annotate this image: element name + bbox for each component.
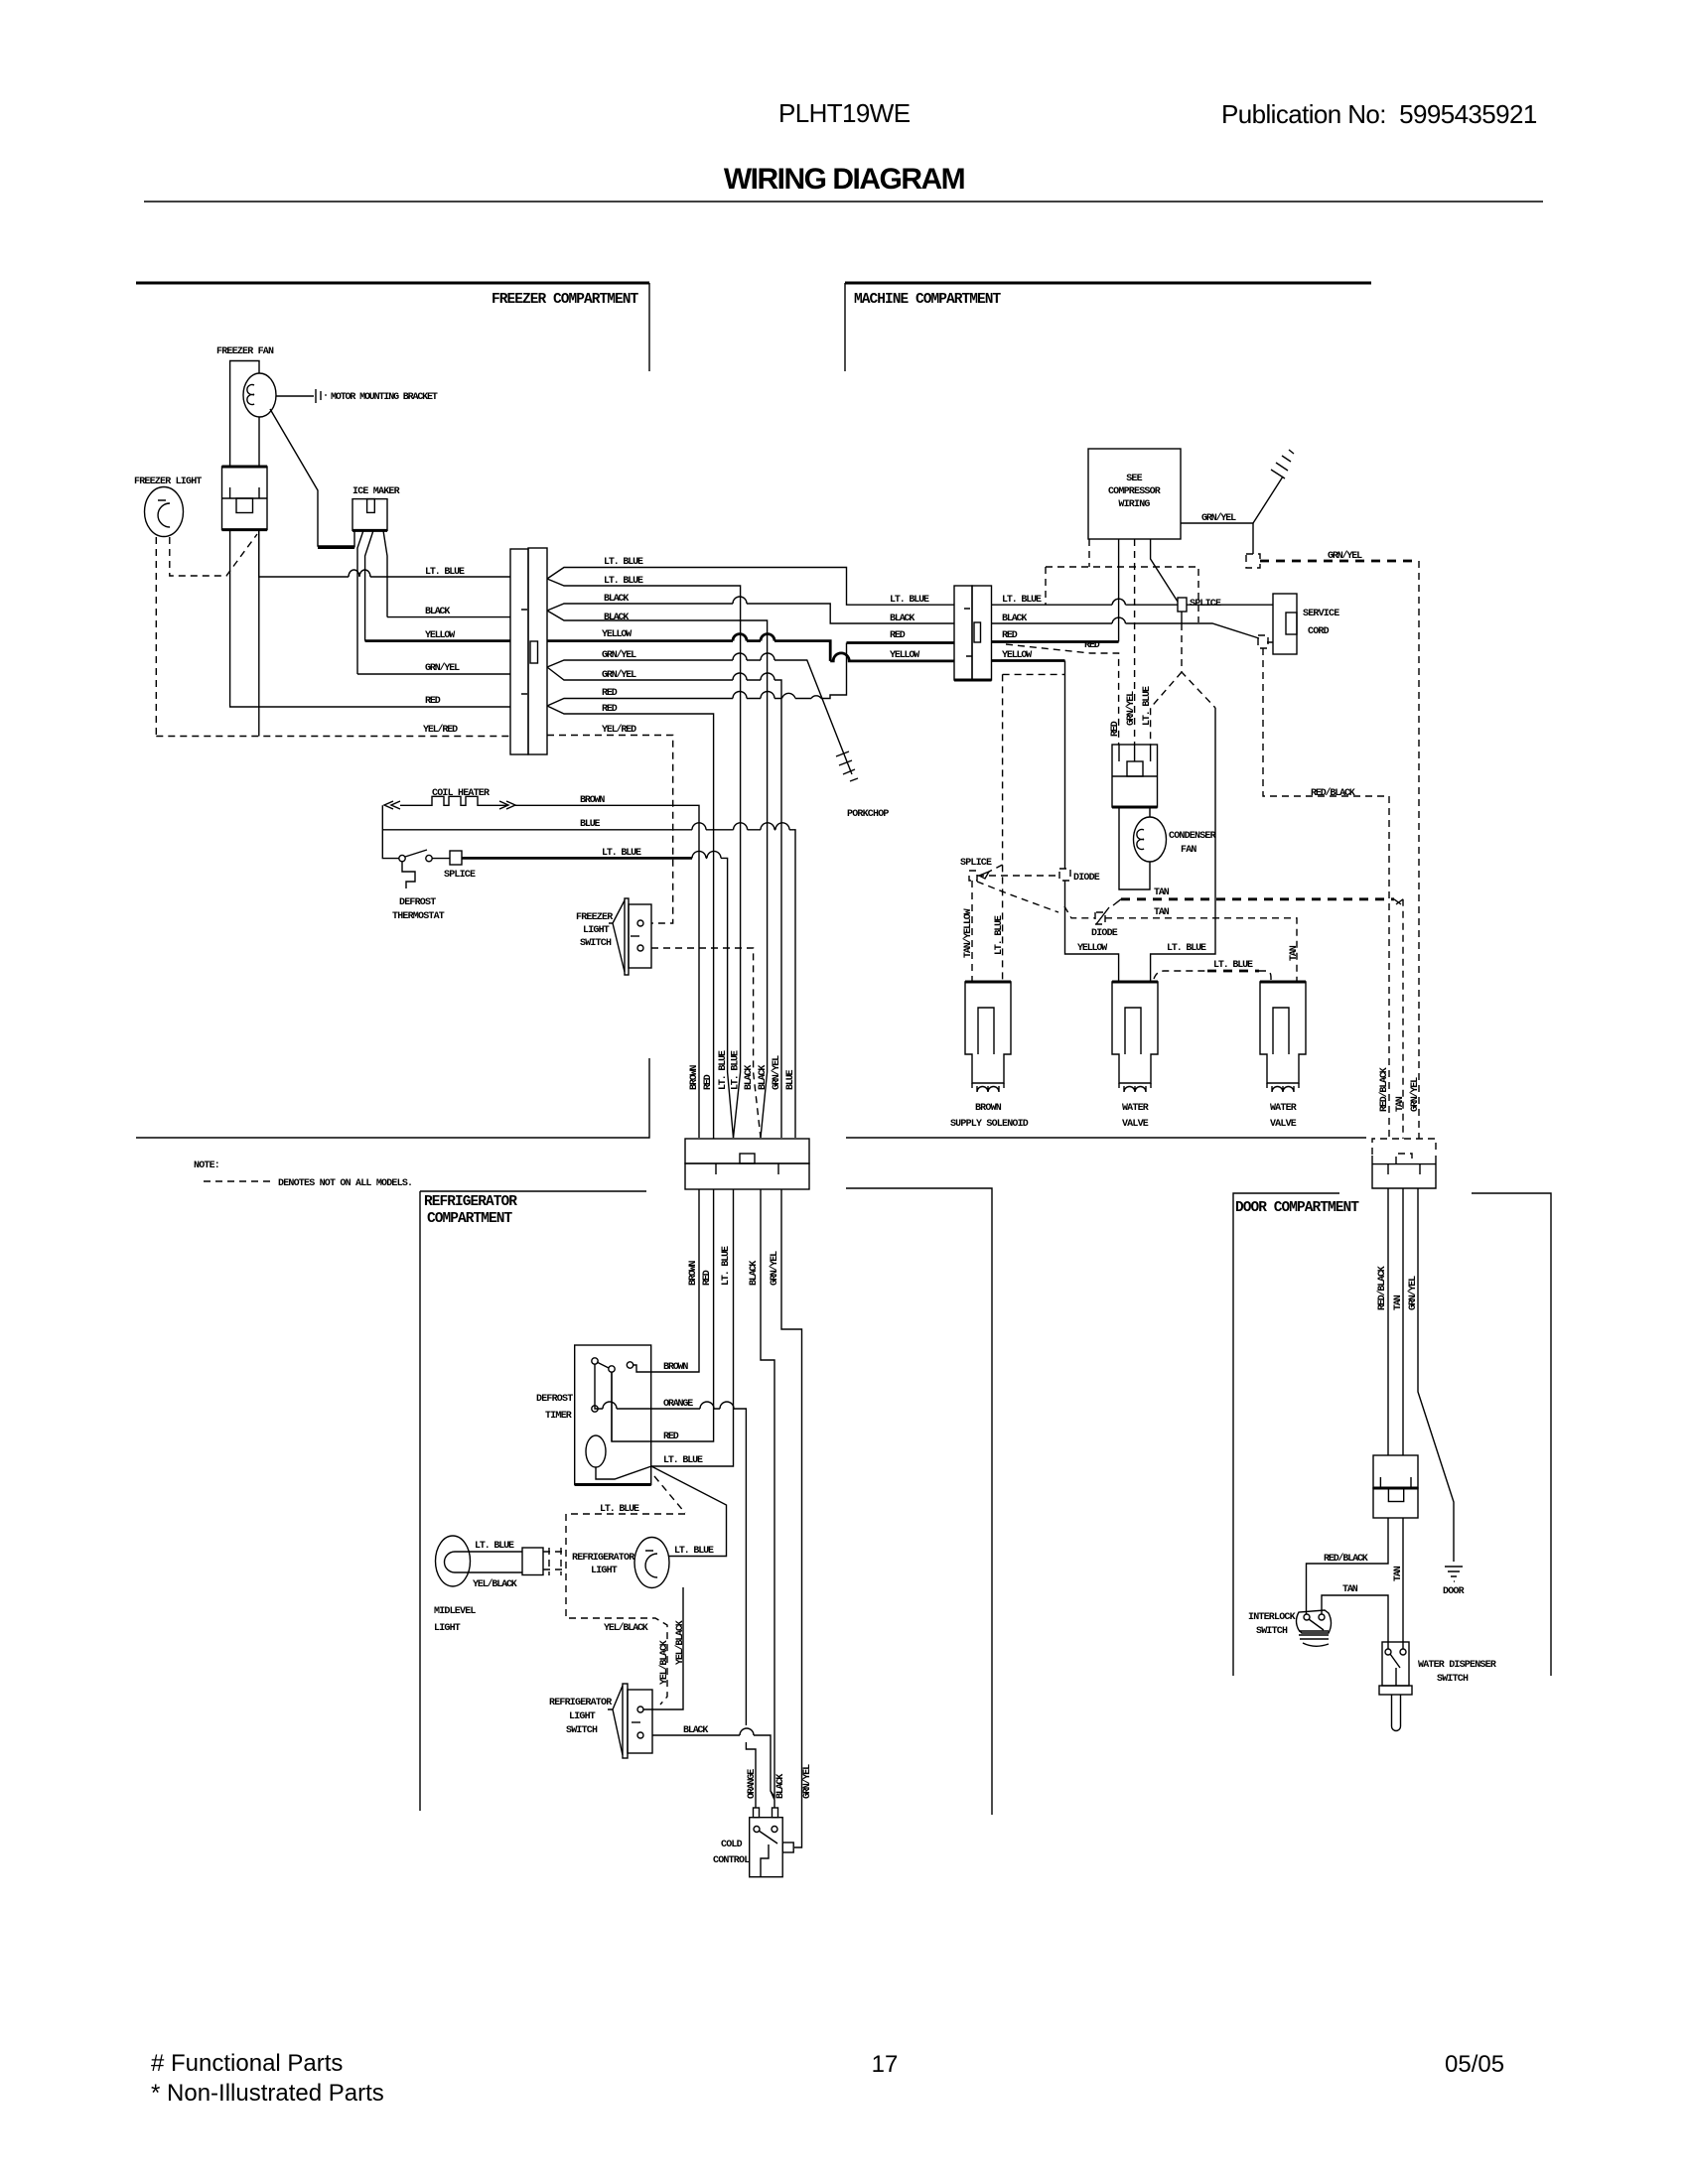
svg-text:BLUE: BLUE (580, 819, 601, 830)
svg-text:BLACK: BLACK (758, 1065, 769, 1090)
condenser fan wires (1119, 807, 1150, 889)
svg-text:BLACK: BLACK (604, 613, 629, 623)
svg-text:YELLOW: YELLOW (1077, 943, 1107, 954)
dashed splice2 to diode1 (977, 875, 1059, 877)
svg-text:CONDENSER: CONDENSER (1169, 831, 1216, 842)
door ground symbol (1445, 1567, 1463, 1581)
dashed pointer to lt.blue dashed (654, 1476, 685, 1513)
svg-text:TIMER: TIMER (545, 1411, 572, 1422)
wire black upper to machine (547, 604, 954, 623)
midlevel light (436, 1536, 471, 1586)
brown supply solenoid connector (965, 982, 1011, 1083)
wire lt.blue from splice (432, 858, 734, 1138)
svg-text:COMPARTMENT: COMPARTMENT (427, 1211, 513, 1227)
svg-text:RED: RED (425, 696, 441, 707)
svg-text:BLACK: BLACK (604, 594, 629, 605)
refrigerator harness bundle connector (685, 1139, 809, 1163)
svg-text:RED: RED (663, 1432, 679, 1442)
machine harness connector (954, 586, 972, 680)
svg-text:GRN/YEL: GRN/YEL (769, 1251, 780, 1286)
svg-text:* Non-Illustrated Parts: * Non-Illustrated Parts (151, 2080, 384, 2107)
svg-text:TAN: TAN (1393, 1566, 1404, 1581)
svg-text:GRN/YEL: GRN/YEL (1407, 1276, 1419, 1310)
svg-text:BLACK: BLACK (744, 1065, 755, 1090)
svg-text:LT. BLUE: LT. BLUE (731, 1050, 742, 1090)
defrost timer motor (586, 1435, 606, 1467)
junction fan wire to yel/red (258, 530, 260, 737)
svg-text:BLUE: BLUE (785, 1069, 796, 1090)
water valve 1 connector (1112, 982, 1158, 1083)
midlevel dashed stubs (543, 1548, 566, 1575)
grn/yel dashed door riser (1418, 561, 1420, 1139)
ice maker (352, 499, 387, 531)
svg-text:WATER: WATER (1122, 1103, 1149, 1114)
svg-text:DIODE: DIODE (1091, 928, 1118, 939)
svg-text:CORD: CORD (1308, 626, 1330, 637)
svg-text:REFRIGERATOR: REFRIGERATOR (549, 1698, 612, 1708)
svg-text:TAN: TAN (1154, 907, 1170, 918)
svg-text:LT. BLUE: LT. BLUE (663, 1455, 703, 1466)
svg-text:FAN: FAN (1181, 845, 1196, 856)
svg-text:GRN/YEL: GRN/YEL (425, 662, 460, 674)
lt.blue diagonal to refrigerator light (651, 1466, 727, 1557)
svg-text:YEL/BLACK: YEL/BLACK (473, 1578, 517, 1590)
lt.blue dashed to midlevel (566, 1514, 685, 1705)
svg-text:LIGHT: LIGHT (583, 925, 610, 936)
defrost timer box (575, 1345, 651, 1485)
defrost timer motor wire (596, 1466, 651, 1479)
svg-text:VALVE: VALVE (1270, 1119, 1297, 1130)
tan upper bold dashed (1121, 897, 1394, 900)
grn/yel dashed compressor to relay (1134, 539, 1136, 745)
svg-text:SPLICE: SPLICE (960, 858, 992, 869)
svg-text:LT. BLUE: LT. BLUE (1213, 960, 1253, 971)
svg-text:TAN: TAN (1154, 887, 1170, 898)
wire blue (382, 830, 795, 1138)
riser grn/yel below connector (781, 1189, 802, 1847)
svg-text:BLACK: BLACK (749, 1261, 760, 1286)
svg-text:WIRING: WIRING (1118, 499, 1150, 510)
svg-text:BROWN: BROWN (689, 1065, 700, 1090)
door wire grn/yel (1418, 1188, 1454, 1562)
freezer fan motor (243, 373, 276, 417)
svg-text:REFRIGERATOR: REFRIGERATOR (424, 1194, 517, 1210)
cold control box (750, 1818, 783, 1877)
wire yel/black ref light down (643, 1587, 683, 1709)
svg-text:LT. BLUE: LT. BLUE (475, 1541, 514, 1552)
tan lower dashed (1064, 906, 1297, 982)
lt.blue dashed valve1 to valve2 (1154, 971, 1271, 982)
svg-text:LT. BLUE: LT. BLUE (1142, 686, 1153, 726)
wire yel/red dashed right side (547, 736, 673, 924)
refrigerator light (634, 1538, 669, 1588)
wire black machine to service cord (992, 623, 1274, 642)
dashed jumper near compressor (1046, 539, 1198, 622)
svg-text:TAN: TAN (1395, 1096, 1406, 1112)
interlock switch (1297, 1610, 1332, 1633)
svg-text:VALVE: VALVE (1122, 1119, 1149, 1130)
wire lt.blue upper to machine (547, 568, 954, 606)
svg-text:SEE: SEE (1126, 474, 1142, 484)
yellow wire to water valve 1 (1065, 881, 1119, 982)
refrigerator light switch (623, 1684, 628, 1758)
porkchop ground symbol (836, 751, 858, 781)
wire red machine to compressor (992, 640, 1119, 643)
svg-text:INTERLOCK: INTERLOCK (1248, 1612, 1296, 1623)
svg-text:WATER DISPENSER: WATER DISPENSER (1418, 1660, 1496, 1671)
svg-text:17: 17 (872, 2051, 899, 2078)
svg-text:COLD: COLD (721, 1840, 743, 1850)
dashed yellow link to splice rail (1003, 674, 1065, 983)
svg-text:BROWN: BROWN (580, 795, 605, 806)
svg-text:RED: RED (1002, 630, 1018, 641)
svg-text:DEFROST: DEFROST (536, 1394, 573, 1405)
freezer compartment border (136, 282, 649, 285)
riser brown below connector (633, 1189, 700, 1372)
svg-text:FREEZER LIGHT: FREEZER LIGHT (134, 477, 202, 487)
door wire tan (1402, 1188, 1404, 1649)
freezer light dashed wire to fan connector (170, 534, 257, 576)
svg-text:NOTE:: NOTE: (194, 1160, 219, 1171)
condenser fan (1134, 817, 1167, 862)
wire orange defrost timer to cold control (595, 1364, 756, 1808)
freezer fan connector (222, 467, 268, 530)
wire yel/red dashed to connector (156, 736, 510, 738)
freezer light dashed wire yel/red (155, 537, 157, 737)
title rule (144, 201, 1543, 203)
svg-text:ORANGE: ORANGE (747, 1769, 758, 1799)
svg-text:LT. BLUE: LT. BLUE (602, 848, 641, 859)
svg-text:RED: RED (1110, 721, 1121, 737)
svg-text:GRN/YEL: GRN/YEL (1328, 550, 1362, 562)
svg-text:YEL/BLACK: YEL/BLACK (604, 1622, 648, 1634)
tan dashed door riser (1402, 899, 1404, 1139)
wire black ice maker to connector (387, 616, 510, 618)
svg-text:YEL/RED: YEL/RED (423, 724, 458, 736)
svg-text:SWITCH: SWITCH (566, 1725, 598, 1736)
svg-text:LT. BLUE: LT. BLUE (674, 1546, 714, 1557)
grn/yel splice square (1246, 554, 1260, 568)
water dispenser switch (1382, 1642, 1409, 1686)
svg-text:COMPRESSOR: COMPRESSOR (1108, 486, 1161, 497)
svg-text:SERVICE: SERVICE (1303, 609, 1339, 619)
svg-text:CONTROL: CONTROL (713, 1855, 750, 1866)
svg-text:RED: RED (702, 1270, 713, 1286)
svg-text:SWITCH: SWITCH (580, 938, 612, 949)
compressor relay box (1112, 745, 1158, 807)
svg-text:BROWN: BROWN (688, 1261, 699, 1286)
svg-text:BLACK: BLACK (425, 607, 450, 617)
lt.blue wire to water valve 1 (1151, 708, 1215, 982)
svg-text:YEL/RED: YEL/RED (602, 724, 636, 736)
svg-text:SUPPLY SOLENOID: SUPPLY SOLENOID (950, 1119, 1029, 1130)
wire lt.blue lower down-riser (547, 579, 741, 1138)
svg-text:PLHT19WE: PLHT19WE (778, 98, 911, 128)
svg-text:SWITCH: SWITCH (1256, 1626, 1288, 1637)
solenoid coil (972, 1083, 1004, 1092)
riser red below connector (612, 1189, 714, 1441)
svg-text:MIDLEVEL: MIDLEVEL (434, 1606, 476, 1617)
red/black dashed path (1263, 648, 1389, 1139)
svg-text:GRN/YEL: GRN/YEL (1201, 512, 1236, 524)
svg-text:SPLICE: SPLICE (1190, 599, 1221, 610)
svg-text:DOOR: DOOR (1443, 1586, 1465, 1597)
wire red defrost timer (611, 1372, 613, 1441)
svg-text:LT. BLUE: LT. BLUE (1002, 595, 1042, 606)
svg-text:WATER: WATER (1270, 1103, 1297, 1114)
svg-text:RED: RED (703, 1074, 714, 1090)
wire lt.blue machine to service cord (992, 604, 1274, 606)
svg-text:RED/BLACK: RED/BLACK (1378, 1067, 1390, 1112)
svg-text:BROWN: BROWN (975, 1103, 1002, 1114)
svg-text:RED: RED (890, 630, 906, 641)
dashed splice to lt.blue legs (1151, 623, 1215, 745)
svg-text:TAN: TAN (1393, 1295, 1404, 1310)
svg-text:YEL/BLACK: YEL/BLACK (674, 1620, 686, 1665)
see compressor wiring box (1088, 449, 1181, 539)
wire red lower to defrost timer riser (547, 706, 714, 1139)
wire grn/yel lower down-riser (547, 667, 781, 1138)
svg-text:LIGHT: LIGHT (569, 1711, 596, 1722)
svg-text:LIGHT: LIGHT (591, 1566, 618, 1576)
wire red upper to machine (547, 643, 847, 707)
svg-text:DEFROST: DEFROST (399, 897, 436, 908)
svg-text:SPLICE: SPLICE (444, 870, 476, 881)
svg-text:TAN: TAN (1342, 1584, 1358, 1595)
red/black takeoff square (1258, 635, 1268, 648)
wire yellow to machine (547, 641, 954, 661)
cold control right tab (782, 1843, 793, 1852)
compressor risers (1151, 539, 1178, 602)
svg-text:LT. BLUE: LT. BLUE (721, 1246, 732, 1286)
wire yellow machine down (992, 659, 1065, 662)
freezer light switch dashed wire lower (651, 948, 761, 1138)
wire black ref switch to cold control (652, 1735, 774, 1808)
svg-text:FREEZER COMPARTMENT: FREEZER COMPARTMENT (492, 292, 639, 308)
wire lt.blue fan to connector (259, 530, 510, 577)
svg-text:GRN/YEL: GRN/YEL (1125, 691, 1137, 726)
wire grn/yel ice maker to connector (357, 673, 510, 675)
svg-text:MOTOR MOUNTING BRACKET: MOTOR MOUNTING BRACKET (331, 392, 438, 403)
svg-text:GRN/YEL: GRN/YEL (602, 649, 636, 661)
motor mounting bracket symbol (276, 389, 321, 403)
svg-text:SWITCH: SWITCH (1437, 1674, 1469, 1685)
door wire red/black (1307, 1188, 1389, 1614)
svg-text:GRN/YEL: GRN/YEL (771, 1055, 782, 1090)
wire black lower down-riser (547, 611, 768, 1138)
refrigerator compartment border (420, 1190, 646, 1192)
water valve 2 connector (1260, 982, 1306, 1083)
svg-text:LT. BLUE: LT. BLUE (425, 567, 465, 578)
hop arcs on lt.blue over ice maker pins (349, 570, 370, 577)
svg-text:RED/BLACK: RED/BLACK (1324, 1553, 1368, 1565)
svg-text:DOOR COMPARTMENT: DOOR COMPARTMENT (1235, 1200, 1359, 1216)
riser black below connector (761, 1189, 774, 1797)
svg-text:TAN: TAN (1289, 945, 1300, 961)
tan horizontal to interlock (1322, 1595, 1388, 1649)
ice maker pins (353, 530, 355, 547)
red dashed tap (1006, 644, 1119, 745)
svg-text:YELLOW: YELLOW (425, 630, 455, 641)
svg-text:YELLOW: YELLOW (890, 650, 919, 661)
svg-text:YELLOW: YELLOW (602, 629, 632, 640)
svg-text:YEL/BLACK: YEL/BLACK (658, 1640, 670, 1685)
svg-text:GRN/YEL: GRN/YEL (602, 669, 636, 681)
svg-text:LT. BLUE: LT. BLUE (994, 915, 1005, 955)
door connector 2 (1373, 1455, 1418, 1488)
splice to black stub (1181, 612, 1183, 623)
splice on lt.blue (1178, 598, 1187, 612)
svg-text:DIODE: DIODE (1073, 873, 1100, 884)
wire yellow ice maker to connector (365, 639, 510, 642)
water valve 1 coil (1119, 1083, 1151, 1092)
svg-text:RED/BLACK: RED/BLACK (1376, 1266, 1388, 1310)
coil heater element (384, 796, 515, 809)
svg-text:THERMOSTAT: THERMOSTAT (392, 911, 445, 922)
svg-text:PORKCHOP: PORKCHOP (847, 809, 889, 820)
svg-text:ICE MAKER: ICE MAKER (352, 486, 400, 497)
svg-text:05/05: 05/05 (1445, 2051, 1504, 2078)
tan/yellow dashed riser (971, 881, 973, 983)
svg-text:RED: RED (1084, 640, 1100, 651)
svg-text:RED: RED (602, 688, 618, 699)
svg-text:RED/BLACK: RED/BLACK (1311, 787, 1355, 799)
svg-text:Publication No: 5995435921: Publication No: 5995435921 (1221, 99, 1537, 129)
dashed arrow into splice2 (989, 865, 1003, 872)
svg-text:WIRING DIAGRAM: WIRING DIAGRAM (724, 163, 964, 196)
water valve 2 coil (1267, 1083, 1299, 1092)
freezer light (145, 487, 184, 537)
svg-text:ORANGE: ORANGE (663, 1399, 693, 1410)
diode 2 (1095, 912, 1105, 924)
wire brown coil heater (515, 805, 699, 1138)
machine splice 2 (969, 871, 977, 881)
riser lt.blue below connector (651, 1189, 734, 1466)
wire red fan to connector (230, 530, 510, 707)
svg-text:REFRIGERATOR: REFRIGERATOR (572, 1553, 634, 1564)
svg-text:FREEZER: FREEZER (576, 912, 613, 923)
midlevel light connector (522, 1548, 543, 1575)
svg-text:MACHINE COMPARTMENT: MACHINE COMPARTMENT (854, 292, 1002, 308)
freezer fan wires (230, 361, 259, 468)
diode 1 (1059, 869, 1070, 881)
svg-text:# Functional Parts: # Functional Parts (151, 2050, 343, 2077)
freezer harness connector (510, 549, 528, 754)
svg-text:DENOTES NOT ON ALL MODELS.: DENOTES NOT ON ALL MODELS. (278, 1178, 412, 1189)
svg-text:GRN/YEL: GRN/YEL (801, 1764, 813, 1799)
dashed splice2 diagonal to tan (977, 882, 1058, 912)
freezer light switch (625, 898, 629, 975)
porkchop wire from fan to ice maker (270, 409, 354, 546)
svg-text:GRN/YEL: GRN/YEL (1409, 1077, 1421, 1112)
compressor grn/yel to ground (1181, 523, 1253, 554)
svg-text:FREEZER FAN: FREEZER FAN (216, 346, 274, 357)
wire grn/yel upper to porkchop (547, 660, 852, 774)
svg-text:LIGHT: LIGHT (434, 1623, 461, 1634)
grn/yel bold dashed to door (1260, 560, 1419, 563)
svg-text:BROWN: BROWN (663, 1362, 688, 1373)
svg-text:LT. BLUE: LT. BLUE (1167, 943, 1206, 954)
ground hash marks top right (1271, 450, 1294, 478)
door harness connector (1372, 1139, 1436, 1155)
door compartment border (1233, 1193, 1339, 1676)
splice box freezer (450, 851, 462, 865)
defrost thermostat contacts (399, 855, 405, 861)
svg-text:LT. BLUE: LT. BLUE (600, 1504, 639, 1515)
defrost timer contacts (592, 1358, 598, 1364)
service cord box (1273, 594, 1297, 654)
machine compartment border (845, 282, 1371, 285)
svg-text:LT. BLUE: LT. BLUE (718, 1050, 729, 1090)
coil heater left rail (382, 805, 399, 858)
svg-text:BLACK: BLACK (775, 1774, 786, 1799)
svg-text:LT. BLUE: LT. BLUE (890, 595, 929, 606)
svg-text:BLACK: BLACK (890, 614, 914, 624)
svg-text:LT. BLUE: LT. BLUE (604, 557, 643, 568)
svg-text:BLACK: BLACK (683, 1725, 708, 1736)
